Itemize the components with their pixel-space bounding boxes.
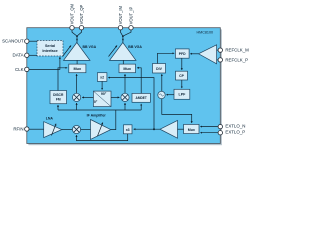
pin SCANOUT xyxy=(25,39,29,43)
svg-text:PFD: PFD xyxy=(179,52,186,56)
mixer RF xyxy=(72,125,80,133)
svg-text:Mux: Mux xyxy=(73,67,81,71)
chip body shadow xyxy=(28,29,222,145)
wire buffer to PFD xyxy=(190,53,198,55)
pin VOUT_IM xyxy=(118,26,122,30)
svg-text:Mux: Mux xyxy=(188,128,195,132)
svg-text:REFCLK_M: REFCLK_M xyxy=(225,48,249,53)
svg-text:DATA: DATA xyxy=(13,53,24,58)
wire IF distribution xyxy=(58,109,141,111)
buffer REFCLK xyxy=(199,45,217,64)
mux M3 (LO select) xyxy=(184,124,199,133)
junction LO tap xyxy=(153,128,155,130)
svg-text:x3: x3 xyxy=(126,128,130,132)
amplifier BB VGA (Q) xyxy=(64,43,91,61)
wire VCO to DIV xyxy=(161,74,163,91)
wire EXTLO_P to LO mux xyxy=(200,132,218,134)
svg-text:90°: 90° xyxy=(101,92,107,96)
mixer I xyxy=(121,93,129,101)
wire VOUT_I split xyxy=(121,30,132,43)
amplifier LO buffer xyxy=(160,120,178,138)
amplifier BB VGA (I) xyxy=(110,43,137,61)
svg-text:x2: x2 xyxy=(100,76,104,80)
wire REFCLK_M stub xyxy=(217,49,219,51)
chip body HMC8100 xyxy=(27,28,221,144)
svg-text:VOUT_QP: VOUT_QP xyxy=(79,4,84,24)
pin REFCLK_P xyxy=(218,58,222,62)
multiplier x3 xyxy=(124,125,133,134)
wire DIV to PFD xyxy=(158,53,175,63)
amplifier IF xyxy=(91,120,111,140)
svg-text:0°: 0° xyxy=(94,100,98,104)
wire IF to DISCR FM xyxy=(57,105,59,110)
wire PFD to CP xyxy=(181,58,183,70)
wire RFIN to LNA xyxy=(29,128,44,130)
pin VOUT_IP xyxy=(129,26,133,30)
pin EXTLO_P xyxy=(218,131,222,135)
phase detector PFD xyxy=(175,49,189,58)
pin RFIN xyxy=(25,127,29,131)
svg-text:SCANOUT: SCANOUT xyxy=(2,39,24,44)
wire IF to mixer Q xyxy=(76,103,78,110)
wire IF to mixer I xyxy=(124,103,126,110)
wire DISCR FM to mux1 xyxy=(58,68,67,91)
oscillator VCO xyxy=(158,91,165,98)
svg-text:AMDET: AMDET xyxy=(136,96,147,100)
mux M1 (Q output select) xyxy=(69,64,86,73)
wire x3 to mixer RF xyxy=(77,134,128,141)
multiplier x2 xyxy=(97,73,107,82)
wire LO riser to x2 xyxy=(108,78,154,130)
mixer Q xyxy=(73,93,81,101)
svg-text:REFCLK_P: REFCLK_P xyxy=(225,57,248,62)
wire 90/0 to mixer I xyxy=(111,96,119,98)
wire EXTLO_N to LO mux xyxy=(200,126,218,128)
svg-text:Serial: Serial xyxy=(45,44,55,48)
svg-text:IF Amplifier: IF Amplifier xyxy=(87,114,107,118)
wire LPF to VCO xyxy=(166,94,174,96)
svg-text:EXTLO_P: EXTLO_P xyxy=(225,130,245,135)
wire IF to AMDET xyxy=(140,104,142,110)
wire CLK to serial interface xyxy=(29,57,60,69)
wire DATA to serial interface xyxy=(29,54,37,56)
phase splitter 90/0 xyxy=(93,91,111,107)
wire mux1 to BB VGA Q xyxy=(76,60,78,64)
wire 90/0 to mixer Q xyxy=(82,96,93,98)
amplifier LNA xyxy=(44,122,62,138)
svg-text:VOUT_IP: VOUT_IP xyxy=(128,7,133,25)
FM discriminator DISCR FM xyxy=(50,91,67,104)
serial interface block U1 xyxy=(37,40,63,56)
svg-text:LPF: LPF xyxy=(179,93,187,97)
wire SCANOUT to serial interface xyxy=(29,40,37,42)
pin DATA xyxy=(25,53,29,57)
wire VCO to LO mux xyxy=(162,99,192,123)
mux M2 (I output select) xyxy=(119,64,136,73)
wire AMDET to mux2 xyxy=(137,68,141,94)
svg-text:VOUT_IM: VOUT_IM xyxy=(118,6,123,25)
svg-text:LNA: LNA xyxy=(46,116,54,120)
wire LO mux to LO buffer xyxy=(178,128,184,130)
wire mixer RF to IF amp xyxy=(81,129,91,131)
svg-text:CLK: CLK xyxy=(15,67,24,72)
wire VOUT_Q split xyxy=(72,30,82,43)
svg-text:CP: CP xyxy=(179,74,184,78)
svg-text:DISCR: DISCR xyxy=(53,93,64,97)
wire IF amp output riser xyxy=(111,110,116,130)
svg-text:BB VGA: BB VGA xyxy=(83,45,97,49)
AM detector AMDET xyxy=(132,93,150,102)
pin VOUT_QM xyxy=(70,26,74,30)
wire mixer I to mux2 xyxy=(124,74,126,93)
svg-text:Mux: Mux xyxy=(123,67,131,71)
svg-text:FM: FM xyxy=(56,98,61,102)
charge pump CP xyxy=(176,71,188,80)
wire LO triangle to x3 xyxy=(134,128,160,130)
svg-text:Interface: Interface xyxy=(42,49,57,53)
pin CLK xyxy=(25,67,29,71)
wire mixer Q to mux1 xyxy=(76,74,78,93)
svg-text:VOUT_QM: VOUT_QM xyxy=(69,3,74,24)
pin EXTLO_N xyxy=(218,124,222,128)
svg-text:RFIN: RFIN xyxy=(13,127,23,132)
loop filter LPF xyxy=(174,89,190,99)
wire CP to LPF xyxy=(181,80,183,88)
svg-text:BB VGA: BB VGA xyxy=(128,45,142,49)
wire mux2 to BB VGA I xyxy=(122,60,124,64)
svg-text:HMC8100: HMC8100 xyxy=(196,30,213,34)
wire REFCLK_P stub xyxy=(217,59,219,61)
wire x2 to 90/0 xyxy=(101,81,103,89)
svg-text:EXTLO_N: EXTLO_N xyxy=(225,123,245,128)
pin VOUT_QP xyxy=(79,26,83,30)
svg-text:DIV: DIV xyxy=(156,67,162,71)
pin REFCLK_M xyxy=(218,48,222,52)
wire LNA to mixer RF xyxy=(62,129,73,131)
divider DIV xyxy=(153,64,166,74)
